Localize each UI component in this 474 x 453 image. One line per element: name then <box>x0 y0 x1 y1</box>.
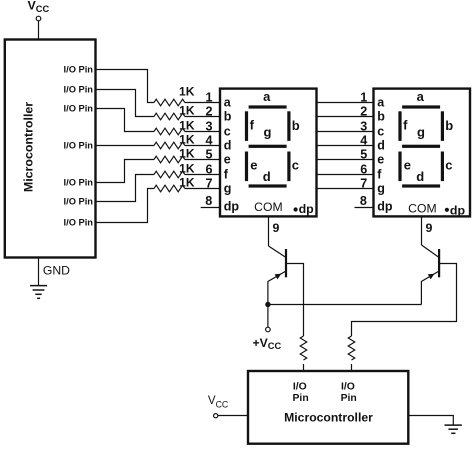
DS1 segment c bar <box>287 152 290 182</box>
+Vcc terminal circle <box>266 327 271 332</box>
DS2 segment d bar <box>402 184 440 187</box>
svg-text:1K: 1K <box>179 133 195 147</box>
svg-text:I/O Pin: I/O Pin <box>64 197 94 207</box>
svg-text:VCC: VCC <box>208 395 229 409</box>
resistor R5 <box>154 156 185 163</box>
microcontroller U2 box <box>248 371 408 444</box>
resistor R1 <box>154 99 185 106</box>
wire R9 to U2 I/O pin <box>351 364 353 371</box>
svg-text:6: 6 <box>360 163 367 177</box>
wire U1 pin5 to R5 <box>96 160 155 183</box>
wire bus segment g DS1 to DS2 <box>317 188 374 190</box>
wire U1 pin1 to R1 <box>96 70 155 103</box>
DS1 pin 8 (dp) stub wire <box>201 207 220 209</box>
svg-text:1K: 1K <box>179 147 195 161</box>
wire Q2 base to R9 <box>352 264 457 337</box>
transistor Q2 base bar <box>438 249 440 277</box>
svg-text:4: 4 <box>360 134 367 148</box>
transistor Q1 base bar <box>285 249 287 277</box>
svg-text:dp: dp <box>450 203 466 217</box>
Vcc bottom terminal circle <box>214 414 218 418</box>
svg-text:I/O Pin: I/O Pin <box>64 104 94 114</box>
resistor R8 (Q1 base) <box>300 336 307 360</box>
wire U1 to ground <box>38 258 40 286</box>
DS2 segment a bar <box>402 105 440 108</box>
svg-text:d: d <box>377 139 385 153</box>
svg-text:1: 1 <box>205 91 212 105</box>
svg-text:7: 7 <box>360 177 367 191</box>
svg-text:6: 6 <box>205 163 212 177</box>
wire U1 pin2 to R2 <box>96 90 155 117</box>
svg-text:f: f <box>403 118 408 133</box>
svg-text:9: 9 <box>426 221 433 235</box>
Vcc terminal circle <box>36 16 41 21</box>
svg-text:c: c <box>224 125 231 139</box>
junction node emitter rail <box>265 302 270 307</box>
svg-text:1K: 1K <box>179 85 195 99</box>
svg-text:d: d <box>224 139 232 153</box>
wire U1 pin7 to R7 <box>96 189 155 223</box>
svg-text:7: 7 <box>205 177 212 191</box>
DS2 segment c bar <box>441 152 444 182</box>
DS2 segment g bar <box>402 145 440 148</box>
DS1 dp dot <box>294 207 298 211</box>
svg-text:a: a <box>377 96 385 110</box>
wire U1 pin4 to R4 <box>96 145 155 147</box>
svg-text:c: c <box>377 125 384 139</box>
DS2 dp dot <box>445 208 449 212</box>
DS2 segment e bar <box>398 152 401 182</box>
wire bus segment a DS1 to DS2 <box>317 102 374 104</box>
svg-text:f: f <box>250 118 255 133</box>
svg-text:g: g <box>264 125 272 140</box>
DS1 segment d bar <box>249 184 287 187</box>
svg-text:Pin: Pin <box>293 393 309 404</box>
svg-text:g: g <box>224 182 232 196</box>
wire U2 to ground <box>408 416 453 426</box>
transistor Q1 collector lead <box>269 246 287 258</box>
svg-text:b: b <box>292 118 300 133</box>
svg-text:+VCC: +VCC <box>253 336 282 351</box>
wire node to +Vcc terminal <box>267 305 269 328</box>
svg-text:1: 1 <box>360 91 367 105</box>
svg-text:e: e <box>377 153 384 167</box>
svg-text:1K: 1K <box>179 104 195 118</box>
svg-text:COM: COM <box>408 202 436 216</box>
wire emitter rail Q1 to Q2 <box>268 304 422 306</box>
svg-text:b: b <box>377 110 385 124</box>
svg-text:e: e <box>250 157 257 172</box>
transistor Q2 emitter arrow (PNP) <box>428 274 435 280</box>
transistor Q1 emitter lead <box>268 271 286 305</box>
wire Vcc to U1 <box>38 21 40 40</box>
wire DS1 pin 9 (COM) <box>268 217 270 247</box>
wire R5 to DS1 pin 5 <box>185 159 220 161</box>
svg-text:I/O Pin: I/O Pin <box>64 65 94 75</box>
svg-text:GND: GND <box>43 264 70 278</box>
svg-text:a: a <box>417 89 425 104</box>
wire R1 to DS1 pin 1 <box>185 102 220 104</box>
svg-text:Pin: Pin <box>341 393 357 404</box>
svg-text:c: c <box>292 157 299 172</box>
svg-text:I/O Pin: I/O Pin <box>64 178 94 188</box>
svg-text:VCC: VCC <box>28 0 50 14</box>
wire R3 to DS1 pin 3 <box>185 131 220 133</box>
wire bus segment e DS1 to DS2 <box>317 159 374 161</box>
svg-text:Microcontroller: Microcontroller <box>284 410 373 424</box>
svg-text:I/O Pin: I/O Pin <box>64 141 94 151</box>
svg-text:8: 8 <box>205 194 212 208</box>
wire bus segment d DS1 to DS2 <box>317 145 374 147</box>
resistor R2 <box>154 113 185 120</box>
svg-text:e: e <box>224 153 231 167</box>
7-segment display DS2 box <box>374 89 471 217</box>
svg-text:9: 9 <box>273 221 280 235</box>
DS1 segment g bar <box>249 145 287 148</box>
svg-text:b: b <box>224 110 232 124</box>
svg-text:a: a <box>224 96 232 110</box>
resistor R9 (Q2 base) <box>348 336 355 360</box>
ground symbol (right) <box>445 425 462 433</box>
svg-text:dp: dp <box>377 200 393 214</box>
resistor R7 <box>154 185 185 192</box>
svg-text:Microcontroller: Microcontroller <box>22 102 36 192</box>
DS1 segment a bar <box>249 105 287 108</box>
wire bus segment c DS1 to DS2 <box>317 131 374 133</box>
svg-text:d: d <box>263 169 271 184</box>
DS2 segment f bar <box>398 111 401 141</box>
wire R4 to DS1 pin 4 <box>185 145 220 147</box>
DS1 segment f bar <box>245 111 248 141</box>
resistor R6 <box>154 171 185 178</box>
resistor R3 <box>154 128 185 135</box>
wire bus segment f DS1 to DS2 <box>317 174 374 176</box>
wire R6 to DS1 pin 6 <box>185 174 220 176</box>
svg-text:1K: 1K <box>179 119 195 133</box>
svg-text:5: 5 <box>360 148 367 162</box>
svg-text:I/O Pin: I/O Pin <box>64 85 94 95</box>
svg-text:5: 5 <box>205 148 212 162</box>
transistor Q1 emitter arrow (PNP) <box>275 274 282 280</box>
svg-text:2: 2 <box>205 105 212 119</box>
DS1 segment e bar <box>245 152 248 182</box>
svg-text:b: b <box>445 118 453 133</box>
DS2 pin 8 (dp) stub wire <box>355 207 374 209</box>
7-segment display DS1 box <box>220 89 317 217</box>
svg-text:I/O Pin: I/O Pin <box>64 218 94 228</box>
microcontroller U1 box <box>5 40 96 258</box>
wire R8 to U2 I/O pin <box>303 364 305 371</box>
wire bus segment b DS1 to DS2 <box>317 116 374 118</box>
svg-text:3: 3 <box>205 120 212 134</box>
wire Vcc to U2 <box>218 415 248 417</box>
svg-text:1K: 1K <box>179 176 195 190</box>
svg-text:COM: COM <box>254 200 282 214</box>
svg-text:8: 8 <box>360 194 367 208</box>
svg-text:3: 3 <box>360 120 367 134</box>
svg-text:2: 2 <box>360 105 367 119</box>
wire U1 pin3 to R3 <box>96 109 155 132</box>
wire Q1 base to R8 <box>286 264 304 337</box>
svg-text:dp: dp <box>299 202 315 216</box>
svg-text:g: g <box>377 182 385 196</box>
svg-text:g: g <box>417 125 425 140</box>
wire DS2 pin 9 (COM) <box>421 217 423 246</box>
svg-text:4: 4 <box>205 134 212 148</box>
wire R7 to DS1 pin 7 <box>185 188 220 190</box>
ground symbol (left) <box>30 286 47 299</box>
resistor R4 <box>154 142 185 149</box>
svg-text:I/O: I/O <box>293 381 307 392</box>
DS1 segment b bar <box>287 111 290 141</box>
svg-text:I/O: I/O <box>341 381 355 392</box>
wire R2 to DS1 pin 2 <box>185 116 220 118</box>
svg-text:d: d <box>416 169 424 184</box>
transistor Q2 collector lead <box>422 245 440 258</box>
svg-text:e: e <box>404 157 411 172</box>
svg-text:c: c <box>445 157 452 172</box>
svg-text:a: a <box>263 89 271 104</box>
transistor Q2 emitter lead <box>421 271 439 305</box>
svg-text:dp: dp <box>224 200 240 214</box>
wire U1 pin6 to R6 <box>96 175 155 202</box>
svg-text:1K: 1K <box>179 162 195 176</box>
DS2 segment b bar <box>441 111 444 141</box>
